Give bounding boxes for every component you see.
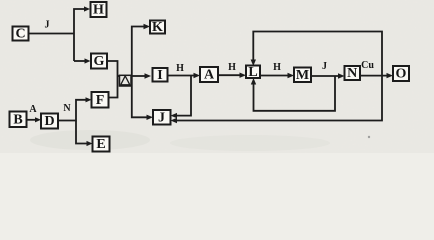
box A [200,67,218,83]
svg-text:G: G [94,54,105,69]
feedback M-N junction to L bottom [254,76,336,111]
wire junction down to J box [132,76,149,117]
wire I to A [168,75,196,77]
box O [393,66,409,82]
svg-text:B: B [13,112,22,127]
svg-text:E: E [96,137,105,152]
box D [41,114,58,130]
feedback loop bottom: N-O junction down to J box right lower [175,76,382,121]
svg-text:C: C [15,27,25,42]
svg-text:M: M [296,68,309,83]
box J [153,110,171,125]
svg-text:A: A [29,104,37,115]
wire A to L [218,74,242,76]
box M [294,68,311,83]
box C [13,27,29,42]
wire L to M [260,75,290,77]
feedback I-A junction to J box right upper [175,76,191,116]
wire split down to E [76,121,88,144]
box G [91,54,107,70]
svg-text:H: H [228,62,236,73]
svg-text:D: D [44,114,54,129]
svg-text:H: H [176,63,184,74]
wire N to O with junction [360,75,389,77]
box L [246,65,260,80]
svg-text:F: F [96,93,105,108]
svg-text:L: L [248,65,257,80]
wire arrow into H [84,6,90,11]
wire G/F merge [107,61,118,98]
wire B to D [27,119,37,121]
svg-text:J: J [158,110,165,125]
wire junction up to K [132,27,146,77]
wire arrow into G [74,60,86,62]
svg-text:J: J [45,20,50,31]
box F [92,92,109,108]
svg-text:N: N [347,66,357,81]
feedback loop top: N-O junction up over to L top [253,32,382,76]
svg-text:Cu: Cu [361,60,374,71]
filter symbol box with triangle [120,75,132,86]
wire M to N with junction [311,75,340,77]
wire C to H/G split [29,33,75,35]
box E [93,137,110,153]
svg-text:H: H [93,3,104,18]
box H [91,2,107,18]
wire D to F/E split [58,100,87,121]
box N [345,66,361,81]
svg-text:N: N [63,103,71,114]
wire merge to filter [118,75,121,77]
svg-text:O: O [396,67,407,82]
svg-text:A: A [204,68,215,83]
svg-text:H: H [273,62,281,73]
svg-text:K: K [152,20,163,35]
box B [10,112,27,128]
wire filter to I with junction [131,75,146,77]
svg-text:I: I [157,68,162,83]
box K [150,20,165,35]
svg-text:J: J [322,61,327,72]
box I [153,68,168,83]
